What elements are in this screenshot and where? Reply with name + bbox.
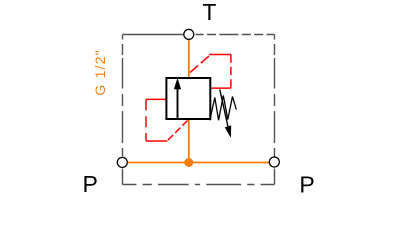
- svg-text:G 1/2": G 1/2": [92, 49, 108, 95]
- svg-text:P: P: [299, 172, 314, 198]
- svg-text:P: P: [83, 171, 98, 197]
- svg-text:T: T: [202, 0, 216, 25]
